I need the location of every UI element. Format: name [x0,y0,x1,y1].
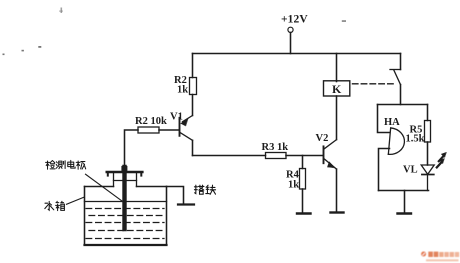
ground alarm block [398,212,412,214]
svg-text:VL: VL [403,165,418,176]
wire V2 emitter down [336,169,338,211]
resistor R4 1k [300,169,306,190]
LED VL [421,165,434,191]
svg-text:R3 1k: R3 1k [262,142,289,153]
watermark [421,252,459,262]
buzzer HA [388,128,405,156]
svg-text:+12V: +12V [281,13,308,25]
wire bus to relay K [336,54,338,82]
relay contact blade [394,70,401,85]
svg-text:V1: V1 [170,112,183,123]
svg-text:1k: 1k [177,85,188,96]
tank cap neck [114,173,137,186]
svg-text:1k: 1k [288,180,299,191]
wire R2 10k to V1 base [159,129,179,131]
water dashes [86,209,164,239]
transistor V2 (NPN) [324,140,337,170]
LED light arrows [437,152,447,167]
wire R4 top lead [302,156,304,169]
wire V1 collector to R3 [193,155,266,157]
wire alarm top rail [378,104,428,106]
label 搭铁 (chassis ground) [194,185,215,194]
label 水箱 (water tank) [45,201,65,210]
wire R4 bottom lead [302,189,304,213]
water surface [85,201,167,203]
+12V terminal [288,27,293,53]
wire R3 to V2 base [286,155,323,157]
leader line electrode label [86,174,125,202]
dashed link relay to contact [353,83,397,85]
wire buzzer lower lead [379,149,390,191]
label 检测电极 (detection electrode) [46,160,86,169]
svg-text:HA: HA [384,117,400,128]
electrode flange [107,172,143,176]
svg-text:V2: V2 [316,133,329,144]
wire bus to contact [400,54,402,70]
detection electrode rod [122,167,126,229]
wire R2(1k) top lead [192,54,194,78]
wire R5 top lead [427,105,429,121]
wire V2 collector to relay K [336,96,338,140]
wire ground stub alarm [404,191,406,214]
wire V1 collector down [192,140,194,155]
resistor R2 10k [138,127,159,133]
water tank [85,187,167,246]
ground chassis [178,203,194,205]
scan noise specks [3,8,347,56]
resistor R2 1k [190,78,197,95]
relay K coil box [324,81,350,96]
wire R2 bottom to V1 emitter [192,95,194,116]
wire left branch down to buzzer [378,105,390,133]
resistor R5 1.5k [425,121,431,143]
wire tank to chassis ground [167,187,184,205]
relay contact fixed tick [390,69,401,71]
resistor R3 1k [266,153,287,159]
transistor V1 (PNP) [180,116,193,141]
svg-text:K: K [332,82,342,96]
wire alarm bottom rail [379,190,429,192]
svg-text:R2 10k: R2 10k [135,116,167,127]
ground V2 emitter [331,211,344,213]
wire top supply bus [193,53,401,55]
svg-text:1.5k: 1.5k [406,134,425,145]
ground R4 [297,212,311,214]
wire R5 to LED [427,142,429,165]
wire R2(10k) corner to electrode [125,130,139,166]
wire contact to alarm block [400,85,402,105]
leader line tank label [67,197,84,204]
